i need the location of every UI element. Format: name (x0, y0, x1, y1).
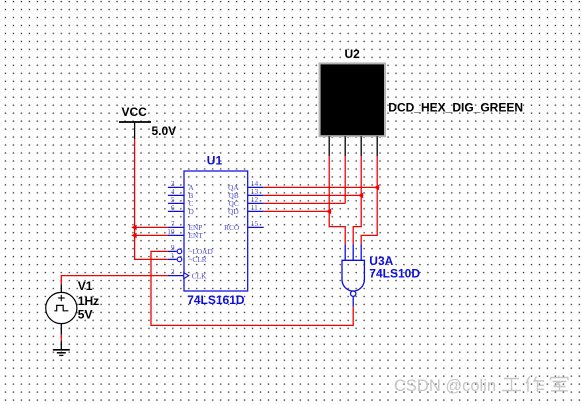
pin 6 D stub (168, 210, 184, 212)
pin 10 ENT stub (168, 234, 184, 236)
wire QB pin13 to display pin c (264, 194, 362, 196)
pin 15 RCO stub (248, 226, 264, 228)
plus sign (58, 297, 65, 299)
pin 13 QB stub (248, 194, 264, 196)
output stub (352, 297, 354, 307)
svg-text:RCO: RCO (224, 223, 239, 232)
svg-text:5V: 5V (78, 307, 93, 321)
wire display pin a down to NAND input 1 (329, 156, 345, 244)
bottom lead (60, 324, 62, 335)
glyph zuo (526, 377, 544, 393)
square wave glyph (54, 305, 68, 310)
svg-text:CSDN @colin: CSDN @colin (394, 377, 496, 395)
pin 5 C stub (168, 202, 184, 204)
wire display pin b down to QC row (344, 156, 346, 203)
svg-text:74LS161D: 74LS161D (187, 293, 245, 307)
wire VCC to ENT pin10 (135, 234, 168, 236)
display lead a (328, 136, 330, 156)
wire QD pin11 to display pin a (264, 210, 330, 212)
svg-text:2: 2 (171, 267, 175, 276)
power VCC (119, 105, 176, 139)
glyph gong (502, 379, 521, 391)
svg-text:10: 10 (167, 227, 175, 236)
glyph shi (551, 376, 569, 391)
svg-text:5.0V: 5.0V (152, 124, 177, 138)
svg-text:1Hz: 1Hz (78, 294, 99, 308)
wire V1 to CLK pin2 (61, 276, 168, 285)
svg-text:U2: U2 (345, 47, 361, 61)
wire display pin d down to NAND input 3 (361, 156, 377, 244)
junction at ENT (131, 233, 136, 239)
counter U1 74LS161D (167, 153, 263, 307)
svg-text:74LS10D: 74LS10D (369, 266, 420, 280)
junction at ENP (131, 225, 136, 231)
wire display pin c down to NAND input 2 (353, 156, 361, 244)
gate body (342, 260, 364, 291)
wire V1 minus to ground (60, 335, 62, 341)
wire QA pin14 to display pin d (264, 186, 378, 188)
svg-text:6: 6 (171, 203, 175, 212)
wire VCC to ENP pin7 (135, 226, 168, 228)
input stub 2 (352, 244, 354, 260)
display lead c (360, 136, 362, 156)
svg-text:11: 11 (251, 203, 258, 212)
svg-text:VCC: VCC (122, 105, 148, 119)
svg-text:DCD_HEX_DIG_GREEN: DCD_HEX_DIG_GREEN (388, 101, 523, 115)
pin 12 QC stub (248, 202, 264, 204)
junction QB node (358, 193, 363, 199)
wire VCC vertical to ENP/ENT/~CLR (135, 139, 168, 259)
pin 14 QA stub (248, 186, 264, 188)
pin 1 ~CLR stub with bubble (168, 258, 177, 260)
pin 7 ENP stub (168, 226, 184, 228)
wire QC pin12 to display pin b (264, 202, 346, 204)
svg-text:D: D (189, 207, 194, 216)
inversion bubble (351, 291, 356, 296)
watermark (394, 376, 568, 396)
NAND gate U3A 74LS10D (342, 244, 420, 306)
pin 3 A stub (168, 186, 184, 188)
wire NAND output feedback to ~LOAD pin9 (151, 251, 353, 325)
svg-text:15: 15 (251, 219, 259, 228)
display U2 DCD_HEX_DIG_GREEN (320, 47, 523, 156)
pin 4 B stub (168, 194, 184, 196)
svg-text:QD: QD (228, 207, 239, 216)
clock source V1 (46, 279, 99, 334)
display lead b (344, 136, 346, 156)
svg-text:1: 1 (171, 251, 175, 260)
svg-text:V1: V1 (78, 279, 93, 293)
ground (53, 341, 70, 356)
svg-text:U1: U1 (207, 153, 223, 167)
pin 9 ~LOAD stub with bubble (168, 250, 177, 252)
input stub 3 (360, 244, 362, 260)
display lead d (376, 136, 378, 156)
svg-text:CLK: CLK (192, 271, 207, 280)
junction QA node (374, 185, 379, 191)
svg-text:ENT: ENT (189, 231, 204, 240)
pin 11 QD stub (248, 210, 264, 212)
svg-text:~CLR: ~CLR (189, 255, 207, 264)
junction QD node (326, 209, 331, 215)
input stub 1 (344, 244, 346, 260)
pin 2 CLK stub with edge triangle (168, 275, 184, 277)
